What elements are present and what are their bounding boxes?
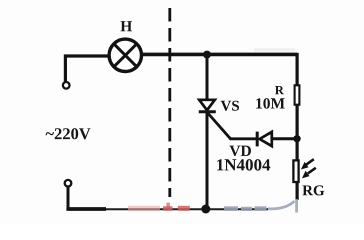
photoresistor RG light arrow 2: [308, 168, 316, 174]
terminal lower (~220V right pole): [65, 180, 72, 187]
wire: lower terminal to bottom wire: [67, 186, 70, 207]
lamp H circle: [109, 39, 141, 71]
label R: [275, 86, 284, 94]
wire: lamp to right rail (top wire): [142, 53, 297, 57]
photoresistor RG light arrow 1: [306, 159, 314, 164]
lamp H cross: [114, 44, 136, 66]
watermark gray rail tail: [295, 199, 298, 213]
label VD: [229, 146, 250, 156]
wire: top-left from upper terminal up and right to lamp: [65, 56, 110, 82]
watermark pink smear on bottom wire: [128, 206, 160, 211]
wire: right rail bottom segment: [296, 183, 299, 200]
wire: bottom return wire (thin faded middle): [106, 208, 268, 210]
node: junction VD / right rail: [293, 135, 300, 142]
watermark red dash 1: [163, 206, 173, 211]
wire: VS gate diagonal + horizontal to VD: [208, 114, 256, 139]
watermark red dash 2: [178, 206, 190, 211]
label RG: [302, 185, 324, 195]
dashed separation line: [168, 8, 171, 197]
label 10M (value of R): [256, 98, 284, 108]
watermark blue-gray dashes on bottom wire: [224, 206, 238, 211]
label VS: [221, 101, 239, 111]
label H (lamp): [121, 21, 133, 31]
diode VD cathode bar: [256, 132, 259, 147]
photoresistor RG body: [293, 160, 298, 182]
label 1N4004 (value of VD): [217, 159, 270, 171]
wire: VS anode vertical: [206, 55, 209, 101]
terminal upper (~220V left pole): [63, 82, 70, 89]
thyristor VS cathode bar: [199, 110, 216, 113]
wire: bottom return wire (thick left part): [66, 207, 106, 211]
watermark red tick: [167, 203, 170, 208]
scan smudge above top wire near corner: [254, 48, 295, 51]
wire: right rail top segment: [296, 53, 299, 85]
thyristor VS triangle: [199, 100, 215, 110]
node: junction bottom wire / VS branch: [201, 205, 210, 214]
watermark gray corner curve bottom-right: [268, 201, 295, 209]
diode VD triangle: [260, 132, 272, 146]
wire: VD to right rail: [272, 137, 297, 140]
wire: right rail middle segment: [296, 105, 299, 160]
wire: VS cathode down to bottom wire: [206, 112, 209, 209]
node: junction top wire / VS branch: [203, 51, 211, 59]
label ~220V: [46, 128, 91, 139]
resistor R body: [295, 85, 300, 104]
